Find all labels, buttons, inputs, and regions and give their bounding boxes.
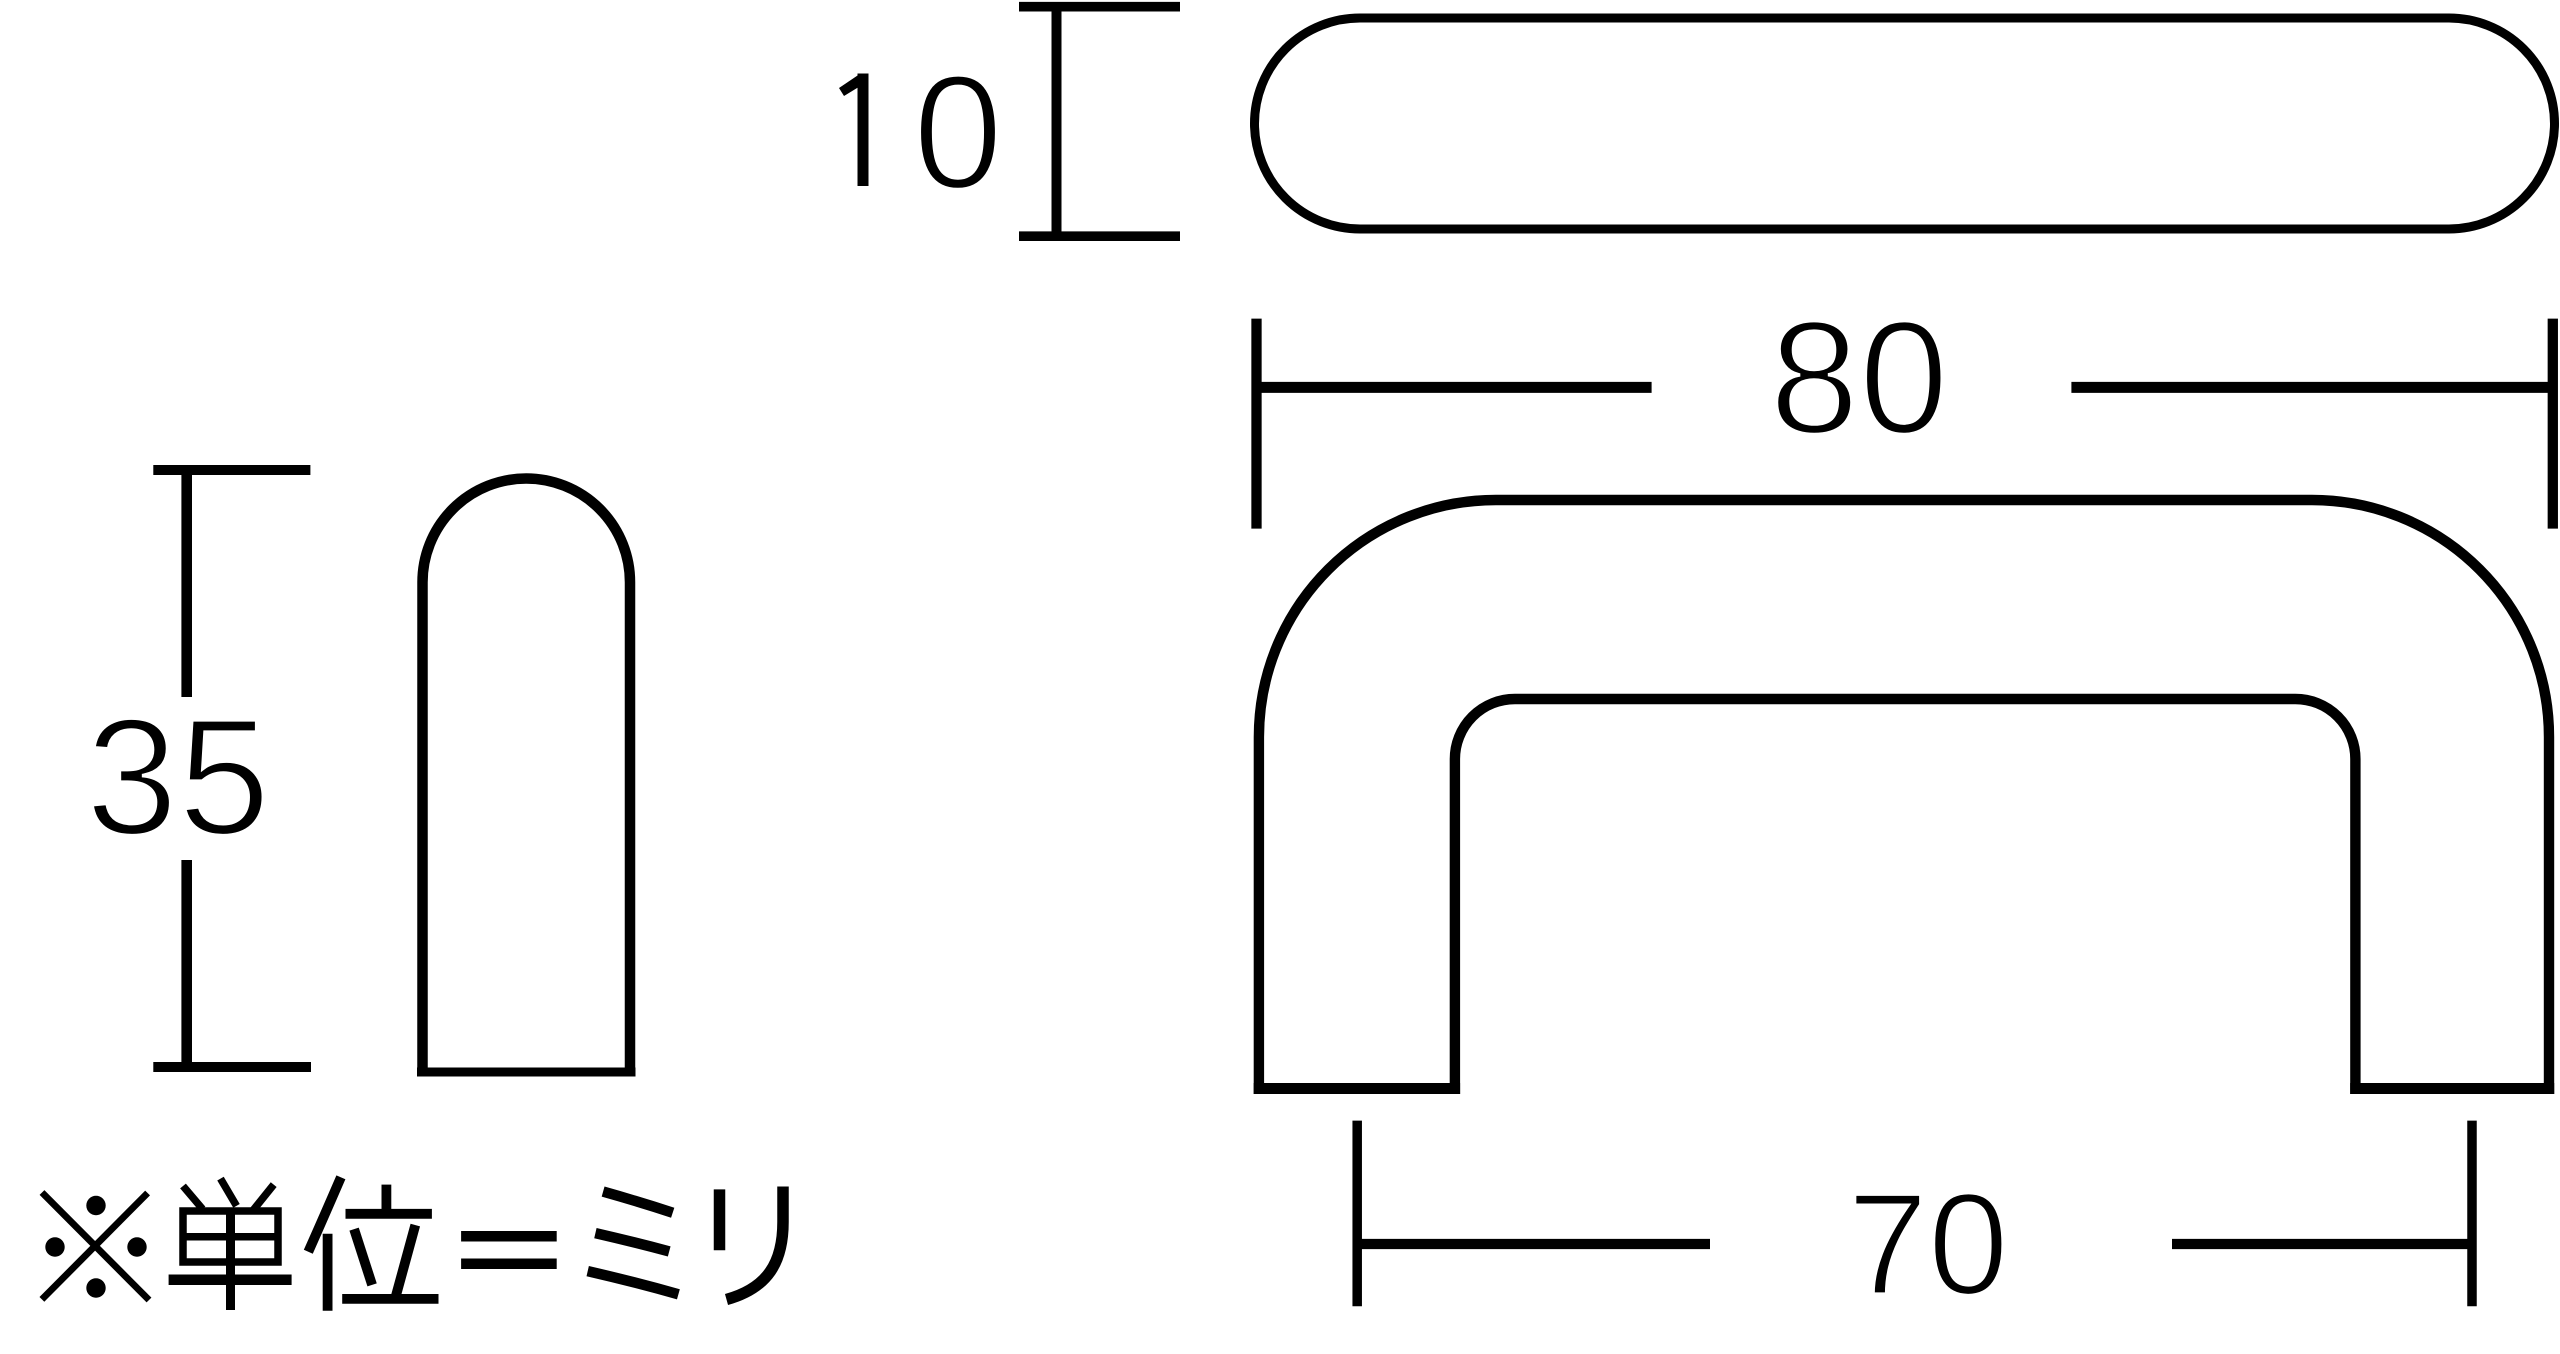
- front view left leg bottom: [1254, 1083, 1460, 1094]
- side view bottom edge: [417, 1068, 636, 1077]
- front view right leg bottom: [2350, 1083, 2554, 1094]
- dimension 10 extension line: [1052, 7, 1062, 237]
- note text: katakana RI: [720, 1187, 784, 1300]
- note text: kanji I (rank/position): [308, 1177, 438, 1311]
- svg-text:70: 70: [1847, 1163, 2008, 1325]
- dimension 35 extension line lower: [181, 860, 192, 1067]
- svg-text:35: 35: [86, 685, 271, 870]
- svg-text:0: 0: [913, 42, 1003, 223]
- dimension 70 left tick: [1352, 1121, 1362, 1307]
- dimension 70 line left segment: [1357, 1239, 1710, 1249]
- side view outline: [423, 479, 631, 1077]
- dimension 80 right tick: [2548, 319, 2558, 529]
- front view outer outline: [1259, 500, 2549, 1094]
- note text: reference mark: [42, 1193, 149, 1301]
- dimension 10 bottom tick: [1019, 231, 1180, 241]
- dimension 35 top tick: [153, 465, 310, 475]
- front view inner outline: [1455, 699, 2355, 1094]
- note text: fullwidth equals sign: [461, 1236, 557, 1263]
- note text: kanji TAN (unit): [169, 1179, 292, 1310]
- dimension 10 top tick: [1019, 2, 1180, 12]
- note text: katakana MI: [588, 1192, 679, 1295]
- dimension label 10: [839, 74, 869, 187]
- top view capsule outline: [1255, 18, 2555, 229]
- svg-text:80: 80: [1769, 288, 1948, 468]
- dimension 80 line right segment: [2071, 382, 2552, 393]
- dimension 35 extension line upper: [181, 470, 192, 697]
- dimension 70 right tick: [2467, 1121, 2477, 1307]
- dimension 35 bottom tick: [153, 1062, 311, 1072]
- dimension 80 line left segment: [1257, 382, 1652, 393]
- dimension 80 left tick: [1251, 319, 1261, 529]
- dimension 70 line right segment: [2172, 1239, 2472, 1249]
